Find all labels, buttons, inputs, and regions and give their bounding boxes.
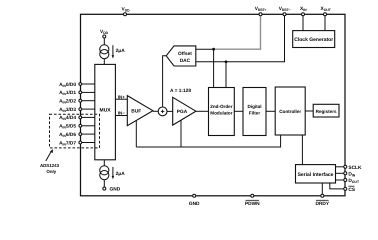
svg-text:2μA: 2μA: [116, 48, 126, 54]
svg-text:GND: GND: [189, 201, 200, 207]
dashed box ADS1243 only inputs: [50, 114, 100, 148]
pin XIN: [300, 6, 307, 16]
wire IN-: [115, 115, 127, 117]
svg-text:BUF: BUF: [131, 109, 141, 115]
pin PDWN: [245, 194, 260, 207]
wire VREF+ gray routing: [214, 14, 261, 49]
pin SCLK: [344, 165, 362, 171]
svg-text:AIN6/D6: AIN6/D6: [59, 132, 76, 138]
pin DRDY: [316, 194, 330, 207]
input pin AIN3/D3: [59, 107, 95, 113]
svg-text:AIN2/D2: AIN2/D2: [59, 99, 76, 105]
svg-text:Modulator: Modulator: [210, 111, 232, 116]
node VREF+ junction: [212, 48, 215, 51]
wire VREF- to modulator: [225, 62, 227, 88]
svg-text:AIN0/D0: AIN0/D0: [59, 82, 76, 88]
wire SCLK: [336, 166, 344, 168]
svg-text:Offset: Offset: [178, 51, 192, 57]
pin VREF-: [279, 6, 291, 16]
svg-text:DAC: DAC: [180, 58, 191, 64]
svg-text:GND: GND: [110, 187, 121, 193]
svg-text:AIN5/D5: AIN5/D5: [59, 124, 76, 130]
wire modulator to filter: [234, 110, 243, 112]
wire DRDY drop: [321, 183, 323, 196]
wire filter to controller: [266, 110, 275, 112]
svg-text:AIN4/D4: AIN4/D4: [59, 115, 76, 121]
pin XOUT: [321, 6, 332, 16]
svg-text:Registers: Registers: [316, 109, 337, 114]
wire offset DAC to summer: [163, 56, 167, 107]
input pin AIN1/D1: [59, 90, 95, 96]
mux U2: [95, 64, 116, 159]
input pin AIN5/D5: [59, 124, 95, 130]
pin VREF+: [255, 6, 267, 16]
svg-text:2nd-Order: 2nd-Order: [210, 104, 232, 109]
wire BUF to summer: [153, 110, 158, 112]
wire current source to gnd: [103, 180, 105, 188]
wire controller to serial interface: [301, 135, 303, 165]
input pin AIN0/D0: [59, 82, 95, 88]
input pin AIN2/D2: [59, 99, 95, 105]
wire current source to MUX: [103, 59, 105, 65]
wire VREF+ to modulator: [213, 49, 215, 87]
wire DIN: [336, 172, 344, 174]
svg-text:Only: Only: [46, 169, 56, 174]
digital filter U6: [243, 88, 266, 136]
input pin AIN6/D6: [59, 132, 95, 138]
chip outline box: [81, 14, 346, 196]
svg-text:CS: CS: [348, 187, 355, 193]
svg-text:AIN3/D3: AIN3/D3: [59, 107, 76, 113]
svg-text:ADS1243: ADS1243: [40, 163, 60, 168]
svg-text:A = 1:128: A = 1:128: [170, 88, 191, 94]
pin CS: [344, 186, 356, 193]
svg-text:Clock Generator: Clock Generator: [294, 37, 333, 43]
svg-text:PGA: PGA: [177, 109, 188, 115]
offset DAC U3: [166, 46, 196, 66]
input pin AIN7/D7: [59, 140, 95, 146]
modulator U4: [209, 88, 235, 136]
ground internal: [103, 187, 121, 193]
wire CS: [330, 183, 344, 189]
svg-text:Digital: Digital: [247, 104, 261, 109]
op-amp PGA: [173, 97, 196, 125]
svg-text:AIN7/D7: AIN7/D7: [59, 140, 76, 146]
node VREF- junction: [225, 60, 228, 63]
wire PGA to modulator: [196, 110, 209, 112]
controller U7: [275, 87, 305, 135]
clock generator U5: [293, 31, 335, 48]
current source I1 2uA: [100, 45, 114, 59]
pin DOUT: [344, 178, 360, 184]
input pin AIN4/D4: [59, 115, 95, 121]
svg-text:MUX: MUX: [100, 108, 112, 114]
wire IN+: [115, 98, 127, 100]
svg-text:2μA: 2μA: [116, 171, 126, 177]
svg-text:Filter: Filter: [249, 111, 260, 116]
label ADS1243 Only: [40, 149, 60, 174]
wire summer to PGA: [167, 110, 173, 112]
wire VDD to current source: [103, 38, 105, 45]
pin GND: [189, 194, 200, 207]
svg-text:AIN1/D1: AIN1/D1: [59, 90, 76, 96]
svg-text:DRDY: DRDY: [316, 201, 330, 207]
wire XOUT to clock generator: [324, 14, 326, 30]
wire control bus horizontal: [136, 135, 280, 147]
pin VDD: [122, 6, 131, 16]
svg-text:SCLK: SCLK: [348, 165, 362, 171]
summing node: [158, 107, 167, 116]
wire control bus PGA drop: [180, 120, 182, 147]
svg-text:Serial Interface: Serial Interface: [298, 172, 334, 178]
wire XIN to clock generator: [302, 14, 304, 30]
pin DIN: [344, 171, 356, 177]
supply VDD internal: [100, 29, 109, 38]
wire Offset DAC to VREF+ junction: [196, 48, 214, 50]
svg-text:IN−: IN−: [118, 111, 125, 116]
wire VREF- routing: [196, 14, 285, 62]
wire DOUT: [336, 179, 344, 181]
bottom current source I2 2uA: [103, 160, 105, 166]
wire controller to registers: [305, 110, 313, 112]
registers U8: [313, 104, 339, 117]
svg-text:Controller: Controller: [279, 109, 301, 114]
serial interface U9: [296, 165, 336, 183]
svg-text:IN+: IN+: [118, 94, 125, 99]
wire control bus BUF drop: [135, 120, 137, 147]
svg-text:PDWN: PDWN: [245, 201, 260, 207]
op-amp BUF: [127, 96, 153, 126]
